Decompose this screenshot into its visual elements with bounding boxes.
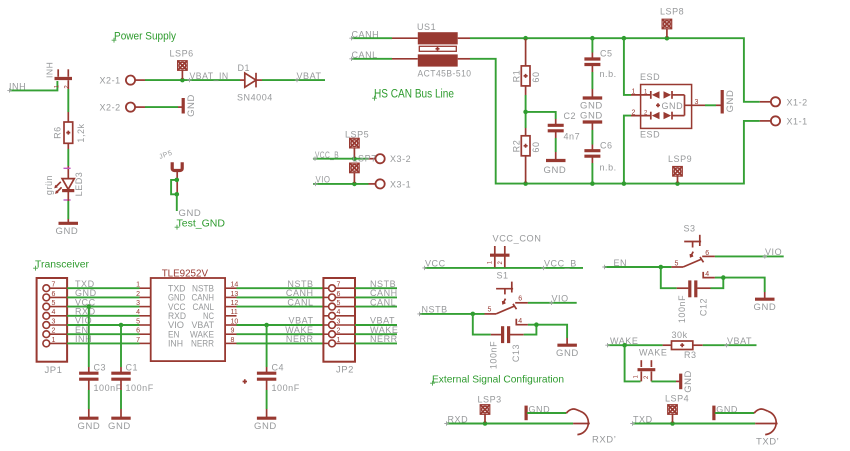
wire JP5 to GND label bbox=[176, 194, 178, 211]
junction C6 bottom bbox=[590, 181, 595, 186]
junction JP5 bottom bbox=[175, 192, 180, 197]
svg-text:JP1: JP1 bbox=[45, 365, 63, 376]
svg-text:NERR: NERR bbox=[286, 334, 314, 344]
ground GND at S1 bbox=[556, 338, 579, 359]
svg-text:100nF: 100nF bbox=[677, 295, 687, 323]
junction R1-R2-C2 bbox=[523, 110, 528, 115]
svg-text:C6: C6 bbox=[600, 141, 613, 151]
svg-text:X2-1: X2-1 bbox=[100, 75, 121, 85]
wire RXD JP1 to U1 bbox=[67, 315, 139, 317]
wire NSTB to S1 pin5 bbox=[419, 313, 485, 315]
svg-text:R6: R6 bbox=[53, 126, 63, 139]
wire RXD to test point bbox=[446, 423, 573, 425]
svg-text:ACT45B-510: ACT45B-510 bbox=[418, 69, 472, 80]
junction S3 pin4 bbox=[721, 275, 726, 280]
wire NERR JP2 out bbox=[355, 342, 397, 344]
svg-text:60: 60 bbox=[531, 141, 541, 152]
ground GND at WAKE jumper bbox=[676, 370, 694, 393]
wire GND to TXD shield bbox=[715, 412, 754, 414]
wire C13 to S1 pin4 bbox=[524, 325, 537, 335]
jumper JP INH body bbox=[45, 62, 73, 89]
wire VBAT U1 to JP2 bbox=[237, 324, 324, 326]
svg-text:GND: GND bbox=[580, 111, 603, 122]
wire S1 pin6 to VIO bbox=[528, 302, 577, 304]
svg-text:LSP4: LSP4 bbox=[665, 394, 689, 404]
wire CANL to US1 bbox=[351, 58, 392, 60]
resistor R3 bbox=[663, 330, 703, 360]
svg-text:8: 8 bbox=[231, 337, 235, 344]
svg-text:VCC_CON: VCC_CON bbox=[493, 234, 542, 244]
wire S3 pin4 to GND bbox=[715, 278, 765, 292]
svg-text:R2: R2 bbox=[512, 140, 522, 153]
svg-text:X2-2: X2-2 bbox=[100, 102, 121, 112]
wire CANH to US1 bbox=[351, 37, 392, 39]
svg-text:1: 1 bbox=[52, 337, 56, 344]
wire TXD to test point bbox=[632, 423, 755, 425]
junction JP5 top bbox=[175, 178, 180, 183]
ground GND at TXD test point bbox=[714, 404, 738, 420]
svg-text:D1: D1 bbox=[238, 63, 251, 73]
LED LED3 bbox=[44, 172, 84, 197]
wire EN to S3 pin5 bbox=[604, 266, 671, 268]
solder pad LSP4 bbox=[665, 394, 689, 423]
svg-text:1,2k: 1,2k bbox=[76, 123, 86, 142]
wire VCC to VCC_B bbox=[424, 267, 583, 269]
wire X2-1 to LSP6 junction bbox=[145, 79, 240, 81]
capacitor C6 bbox=[584, 130, 616, 183]
junction LSP8 bbox=[665, 36, 670, 41]
wire TXD JP1 to U1 bbox=[67, 287, 139, 289]
junction ESD pin1 branch bbox=[622, 36, 627, 41]
svg-text:6: 6 bbox=[337, 291, 341, 298]
svg-text:VBAT: VBAT bbox=[297, 71, 322, 81]
capacitor C3 bbox=[79, 363, 122, 394]
svg-text:4: 4 bbox=[52, 309, 56, 316]
svg-text:CANL: CANL bbox=[287, 297, 313, 307]
svg-text:INH: INH bbox=[168, 339, 183, 349]
wire VIO to X3-1 bbox=[313, 183, 369, 185]
svg-text:6: 6 bbox=[136, 328, 140, 335]
wire CANL U1 to JP2 bbox=[237, 306, 324, 308]
wire LED3 to GND bbox=[67, 201, 69, 219]
ground GND at X2-2 bbox=[178, 94, 197, 117]
common-mode choke US1 bbox=[392, 22, 472, 80]
wire VCC JP1 to U1 bbox=[67, 306, 139, 308]
test point connector RXD' bbox=[566, 409, 616, 446]
svg-text:60: 60 bbox=[531, 71, 541, 82]
svg-text:US1: US1 bbox=[417, 22, 436, 32]
svg-text:LSP7: LSP7 bbox=[353, 154, 377, 164]
svg-text:VBAT: VBAT bbox=[727, 336, 752, 346]
svg-text:X3-1: X3-1 bbox=[390, 179, 411, 189]
svg-text:GND: GND bbox=[683, 370, 694, 393]
ground GND under C2 bbox=[544, 152, 567, 176]
capacitor C4 bbox=[243, 363, 300, 394]
junction LSP3 bbox=[483, 421, 488, 426]
svg-text:GND: GND bbox=[186, 94, 197, 117]
solder pad LSP5 bbox=[345, 130, 369, 158]
origin cross marks at labels bbox=[7, 36, 767, 426]
wire WAKE JP2 out bbox=[355, 333, 397, 335]
junction LSP5 bbox=[352, 156, 357, 161]
svg-text:5: 5 bbox=[136, 318, 140, 325]
svg-text:100nF: 100nF bbox=[126, 383, 154, 393]
junction R2 bottom bbox=[523, 181, 528, 186]
junction at LSP6 bbox=[180, 78, 185, 83]
svg-text:R1: R1 bbox=[512, 70, 522, 83]
ground GND at RXD test point bbox=[526, 404, 550, 420]
wire S1 pin4 to GND bbox=[528, 325, 567, 338]
svg-text:GND: GND bbox=[556, 348, 579, 359]
wire X2-2 to GND bbox=[145, 106, 178, 108]
connector X3-2 bbox=[369, 154, 412, 164]
wire S3 pin6 to VIO bbox=[715, 255, 784, 257]
wire NSTB JP2 out bbox=[355, 287, 397, 289]
svg-text:GND: GND bbox=[56, 226, 79, 237]
svg-text:JP2: JP2 bbox=[336, 365, 354, 376]
wire C2 branch bbox=[527, 112, 556, 119]
diode D1 bbox=[237, 63, 273, 103]
svg-text:NERR: NERR bbox=[370, 334, 398, 344]
connector JP1 body bbox=[37, 278, 68, 362]
svg-text:CANL: CANL bbox=[370, 297, 396, 307]
svg-text:5: 5 bbox=[52, 300, 56, 307]
wire INH JP1 to U1 bbox=[67, 342, 139, 344]
svg-text:X1-1: X1-1 bbox=[787, 116, 808, 126]
svg-text:VCC_B: VCC_B bbox=[544, 259, 577, 269]
junction C1 on VIO bbox=[119, 323, 124, 328]
wire ESD pin1 branch bbox=[624, 39, 631, 95]
pin R6 bottom bbox=[67, 143, 69, 149]
svg-text:X3-2: X3-2 bbox=[390, 154, 411, 164]
svg-text:3: 3 bbox=[337, 318, 341, 325]
connector X2-2 bbox=[100, 102, 146, 112]
svg-text:GND: GND bbox=[78, 421, 101, 432]
switch S1 bbox=[485, 282, 528, 325]
svg-text:NSTB: NSTB bbox=[422, 304, 448, 314]
LED3 pin bottom bbox=[67, 191, 69, 201]
svg-text:R3: R3 bbox=[684, 350, 697, 360]
solder pad LSP8 bbox=[660, 7, 684, 38]
wire EN down to C12 bbox=[661, 267, 677, 288]
junction LSP9 bbox=[675, 181, 680, 186]
connector X1-2 bbox=[760, 97, 808, 107]
svg-text:2: 2 bbox=[337, 328, 341, 335]
svg-text:7: 7 bbox=[136, 337, 140, 344]
junction C5 top bbox=[590, 36, 595, 41]
connector JP2 body bbox=[323, 278, 355, 362]
wire NSTB down to C13 bbox=[473, 314, 491, 335]
wire jumper WAKE to GND bbox=[651, 380, 676, 382]
svg-text:30k: 30k bbox=[672, 330, 688, 340]
solder pad LSP9 bbox=[668, 154, 692, 183]
ground GND under LED3 bbox=[56, 219, 79, 237]
wire VCC down to C3 bbox=[88, 307, 90, 367]
solder pad LSP3 bbox=[478, 394, 502, 422]
svg-text:7: 7 bbox=[52, 282, 56, 289]
svg-text:LSP9: LSP9 bbox=[668, 154, 692, 164]
svg-text:3: 3 bbox=[52, 318, 56, 325]
junction C3 on VCC bbox=[87, 304, 92, 309]
svg-text:11: 11 bbox=[231, 309, 238, 316]
svg-text:S3: S3 bbox=[684, 224, 696, 234]
connector X1-1 bbox=[760, 116, 808, 126]
pin R6 top bbox=[67, 112, 69, 122]
svg-text:C3: C3 bbox=[94, 363, 107, 373]
svg-text:4: 4 bbox=[136, 309, 140, 316]
wire WAKE U1 to JP2 bbox=[237, 333, 324, 335]
svg-text:GND: GND bbox=[725, 90, 736, 113]
wire short bracket JP5 bbox=[171, 180, 177, 194]
svg-text:C4: C4 bbox=[272, 363, 285, 373]
wire VCC_B to X3-2 bbox=[313, 158, 369, 160]
wire C2 to GND bbox=[555, 138, 557, 152]
svg-text:4: 4 bbox=[337, 309, 341, 316]
wire WAKE down to jumper bbox=[625, 345, 641, 381]
svg-text:3: 3 bbox=[136, 300, 140, 307]
svg-text:LSP8: LSP8 bbox=[660, 7, 684, 17]
wire NERR U1 to JP2 bbox=[237, 342, 324, 344]
svg-text:C13: C13 bbox=[511, 344, 521, 362]
wire D1 to VBAT bbox=[262, 79, 325, 81]
ground GND under C3 bbox=[78, 409, 101, 432]
svg-text:ESD: ESD bbox=[640, 130, 660, 140]
svg-text:VIO: VIO bbox=[316, 174, 331, 184]
wire CANL JP2 out bbox=[355, 306, 397, 308]
wire CANH JP2 out bbox=[355, 296, 397, 298]
svg-text:1: 1 bbox=[136, 282, 140, 289]
svg-text:GND: GND bbox=[754, 302, 777, 313]
LED D3 pin top bbox=[67, 166, 69, 179]
junction NSTB C13 bbox=[471, 312, 476, 317]
wire R3 to VBAT bbox=[703, 344, 757, 346]
wire CANH rail top bbox=[470, 38, 760, 102]
wire WAKE to R3 bbox=[607, 344, 663, 346]
ESD diode array bbox=[631, 72, 705, 140]
wire GND to RXD shield bbox=[527, 412, 566, 414]
wire ESD pin3 to GND bbox=[705, 104, 716, 106]
svg-text:LSP6: LSP6 bbox=[170, 49, 194, 59]
wire jumper to R6 bbox=[67, 89, 69, 112]
ground GND above C6 bbox=[580, 111, 603, 130]
wire VBAT down to C4 bbox=[266, 325, 268, 367]
ground GND under C5 bbox=[580, 89, 603, 112]
svg-text:7: 7 bbox=[337, 282, 341, 289]
junction EN C12 bbox=[659, 265, 664, 270]
wire GND JP1 to U1 bbox=[67, 296, 139, 298]
svg-text:grün: grün bbox=[44, 175, 54, 195]
svg-text:5: 5 bbox=[337, 300, 341, 307]
resistor R6 bbox=[53, 122, 87, 143]
svg-text:C5: C5 bbox=[600, 49, 613, 59]
wire VBAT JP2 out bbox=[355, 324, 397, 326]
ground GND at ESD pin3 bbox=[716, 90, 736, 114]
ground GND under C1 bbox=[108, 409, 131, 432]
magenta tick top of LED3 bbox=[64, 167, 71, 169]
wire VIO JP1 to U1 bbox=[67, 324, 139, 326]
svg-text:2: 2 bbox=[52, 328, 56, 335]
svg-text:RXD’: RXD’ bbox=[592, 435, 616, 446]
junction S1 pin4 bbox=[534, 322, 539, 327]
wire R1 to R2 bbox=[525, 95, 527, 128]
svg-text:ESD: ESD bbox=[640, 72, 660, 82]
svg-text:HS CAN Bus Line: HS CAN Bus Line bbox=[374, 89, 454, 101]
svg-text:Transceiver: Transceiver bbox=[35, 260, 90, 271]
svg-text:9: 9 bbox=[231, 328, 235, 335]
capacitor C1 bbox=[111, 363, 153, 394]
solder pad LSP6 bbox=[170, 49, 194, 80]
wire ESD pin2 branch bbox=[624, 116, 631, 183]
connector X3-1 bbox=[369, 179, 412, 189]
svg-text:External Signal Configuration: External Signal Configuration bbox=[432, 374, 564, 386]
svg-text:C1: C1 bbox=[126, 363, 139, 373]
capacitor C12 bbox=[677, 280, 711, 323]
test point connector TXD' bbox=[754, 409, 779, 448]
jumper WAKE bbox=[634, 348, 668, 382]
junction ESD pin2 branch bbox=[622, 181, 627, 186]
resistor R2 bbox=[512, 128, 542, 183]
svg-text:Power Supply: Power Supply bbox=[114, 31, 177, 43]
svg-text:GND: GND bbox=[108, 421, 131, 432]
jumper VCC_CON bbox=[487, 234, 541, 268]
svg-text:100nF: 100nF bbox=[272, 383, 300, 393]
svg-text:TXD’: TXD’ bbox=[756, 437, 779, 448]
svg-text:S1: S1 bbox=[497, 271, 509, 281]
capacitor C13 bbox=[489, 326, 524, 369]
switch S3 bbox=[671, 235, 715, 278]
svg-text:SN4004: SN4004 bbox=[237, 93, 273, 103]
svg-text:C12: C12 bbox=[699, 298, 709, 316]
svg-text:WAKE: WAKE bbox=[639, 348, 667, 358]
junction LSP7 bbox=[352, 182, 357, 187]
capacitor C5 bbox=[584, 38, 616, 89]
svg-text:VBAT_IN: VBAT_IN bbox=[190, 71, 229, 81]
wire C3 to GND bbox=[88, 390, 90, 409]
wire net INH bbox=[9, 81, 57, 90]
pin jumper to R6 bbox=[67, 80, 69, 89]
test point JP5 bbox=[158, 150, 182, 195]
svg-text:C2: C2 bbox=[564, 111, 577, 121]
svg-text:GND: GND bbox=[254, 421, 277, 432]
svg-text:1: 1 bbox=[337, 337, 341, 344]
wire R6 to LED3 bbox=[67, 149, 69, 166]
svg-text:2: 2 bbox=[136, 291, 140, 298]
wire EN JP1 to U1 bbox=[67, 333, 139, 335]
svg-text:100nF: 100nF bbox=[94, 383, 122, 393]
svg-text:GND: GND bbox=[662, 101, 684, 111]
ground GND at S3 bbox=[754, 292, 777, 313]
svg-text:GND: GND bbox=[544, 165, 567, 176]
junction WAKE bbox=[622, 343, 627, 348]
wire CANH U1 to JP2 bbox=[237, 296, 324, 298]
wire NSTB U1 to JP2 bbox=[237, 287, 324, 289]
svg-text:6: 6 bbox=[518, 296, 522, 303]
connector X2-1 bbox=[100, 75, 146, 85]
IC U1 TLE9252V bbox=[136, 269, 238, 362]
svg-text:Test_GND: Test_GND bbox=[177, 218, 226, 230]
capacitor C2 bbox=[548, 111, 580, 142]
svg-text:6: 6 bbox=[52, 291, 56, 298]
solder pad LSP7 bbox=[350, 154, 377, 183]
svg-text:X1-2: X1-2 bbox=[787, 97, 808, 107]
ground GND under C4 bbox=[254, 409, 277, 432]
svg-text:4n7: 4n7 bbox=[564, 132, 581, 142]
svg-text:5: 5 bbox=[488, 306, 492, 313]
junction C4 on VBAT bbox=[264, 323, 269, 328]
svg-text:n.b.: n.b. bbox=[600, 69, 617, 79]
svg-text:LSP3: LSP3 bbox=[478, 394, 502, 404]
magenta tick bottom of LED3 bbox=[64, 199, 71, 201]
wire VIO down to C1 bbox=[120, 325, 122, 367]
svg-text:INH: INH bbox=[45, 62, 55, 78]
svg-text:100nF: 100nF bbox=[489, 341, 499, 369]
svg-text:NERR: NERR bbox=[191, 339, 214, 349]
wire C12 to S3 pin4 bbox=[711, 278, 724, 289]
resistor R1 bbox=[512, 39, 542, 95]
junction LSP4 bbox=[670, 421, 675, 426]
wire C1 to GND bbox=[120, 390, 122, 409]
wire CANL from US1 down to bottom rail bbox=[470, 59, 760, 184]
svg-text:n.b.: n.b. bbox=[600, 163, 617, 173]
wire C4 to GND bbox=[266, 390, 268, 409]
junction R1 top bbox=[523, 36, 528, 41]
svg-text:LED3: LED3 bbox=[74, 172, 84, 197]
